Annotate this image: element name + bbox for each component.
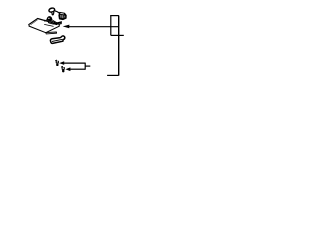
right bracket riser	[110, 16, 112, 36]
plate recess 2	[54, 23, 57, 25]
plate top face	[29, 19, 59, 32]
right bracket top tick	[110, 15, 119, 17]
screw 2 slot tick	[61, 65, 63, 68]
microphone cable	[54, 11, 59, 13]
connector block	[59, 12, 67, 19]
screw 1 leader	[64, 62, 85, 64]
arrow with leader line 2	[63, 25, 70, 29]
right bracket bottom hook	[107, 74, 119, 76]
plate dome tab	[47, 16, 52, 20]
small bracket part below plate	[50, 36, 64, 44]
screw 1 body	[56, 63, 58, 66]
screw 2 leader	[70, 68, 85, 70]
screw 1 arrow	[59, 61, 64, 65]
plate recess 1	[48, 21, 54, 24]
plate small circle mark	[44, 20, 45, 21]
screw 1 head	[56, 61, 59, 63]
screw 2 body	[62, 70, 64, 73]
microphone clip ring	[48, 7, 55, 12]
right bracket mid tick	[111, 34, 124, 36]
microphone foot	[52, 12, 55, 16]
plate inner line	[44, 24, 53, 26]
screw bracket vertical	[84, 63, 86, 70]
plate small tick	[46, 19, 47, 21]
leader line 2	[69, 26, 119, 28]
screw 2 head	[62, 67, 65, 69]
plate thickness	[29, 24, 59, 32]
plate edge detail line	[52, 20, 60, 25]
screw 1 slot tick	[55, 59, 57, 62]
right bracket main vertical	[118, 16, 120, 76]
screw bracket stub	[85, 65, 90, 67]
screw 2 arrow	[65, 67, 70, 71]
plate inner rim line	[31, 20, 38, 25]
arrow at plate corner	[56, 21, 62, 24]
thin strip under plate	[46, 32, 57, 34]
